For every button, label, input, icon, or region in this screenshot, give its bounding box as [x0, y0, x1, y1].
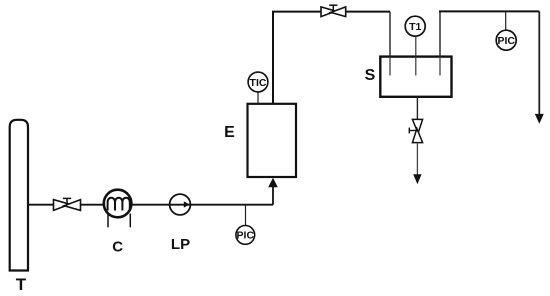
svg-text:C: C [112, 239, 123, 256]
svg-text:T: T [16, 275, 27, 294]
svg-text:S: S [365, 67, 376, 84]
svg-text:LP: LP [171, 236, 190, 253]
svg-text:T1: T1 [409, 21, 421, 33]
svg-text:PIC: PIC [237, 230, 255, 242]
svg-text:PIC: PIC [497, 35, 515, 47]
svg-text:E: E [224, 124, 235, 141]
svg-text:TIC: TIC [250, 77, 267, 89]
